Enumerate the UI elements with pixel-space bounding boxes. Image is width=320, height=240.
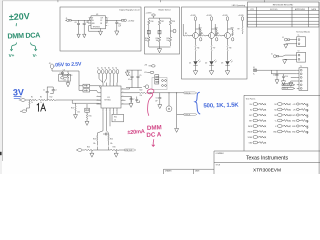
- wire out to flags: [147, 92, 184, 94]
- svg-text:J6: J6: [253, 67, 255, 69]
- resistor R10 shunt: [27, 100, 31, 110]
- svg-text:20k: 20k: [140, 95, 143, 97]
- wire input to regulator: [71, 19, 91, 21]
- svg-text:XTR_IN: XTR_IN: [283, 88, 288, 90]
- svg-text:10k: 10k: [93, 143, 96, 145]
- power symbol +3.3VD row 3: [290, 114, 308, 117]
- power flag +1.8V column 4 stub: [238, 15, 245, 34]
- svg-text:R15: R15: [89, 116, 92, 118]
- svg-text:Test Points: Test Points: [246, 97, 256, 100]
- capacitor C16: [282, 74, 288, 81]
- jumper JP2: [79, 86, 101, 93]
- svg-text:U3: U3: [96, 14, 98, 16]
- svg-text:V+: V+: [253, 74, 255, 76]
- svg-text:D3: D3: [221, 63, 223, 65]
- resistor R1: [30, 96, 38, 100]
- svg-text:NC: NC: [100, 20, 102, 22]
- capacitor C12: [103, 133, 109, 136]
- capacitor C2: [52, 87, 57, 94]
- capacitor C9: [83, 20, 88, 27]
- wire T2 pin2 to ground: [285, 58, 295, 60]
- svg-text:±20mA: ±20mA: [127, 129, 145, 136]
- wire cap rail: [47, 87, 53, 94]
- resistor R15: [86, 112, 91, 121]
- test point TP10: [274, 108, 290, 111]
- test point TP6: [247, 130, 266, 133]
- jumper JMP1: [147, 26, 150, 34]
- wire ic right pins: [126, 88, 132, 104]
- svg-text:TPS76933: TPS76933: [93, 26, 100, 28]
- svg-text:1uF: 1uF: [118, 26, 121, 28]
- test point TP7: [248, 136, 266, 139]
- annotation V+ hook arrow (teal): [10, 43, 16, 51]
- svg-text:1k: 1k: [114, 119, 116, 121]
- test point TP5: [248, 125, 266, 128]
- wire T3 pin4: [291, 81, 297, 82]
- capacitor C7: [129, 97, 135, 108]
- wire to ladder: [56, 99, 72, 101]
- ground: [66, 83, 70, 87]
- svg-text:XTR_OUT: XTR_OUT: [283, 84, 290, 86]
- capacitor C15: [273, 70, 278, 80]
- net flag XTR_OUT: [282, 84, 295, 87]
- ground: [275, 80, 279, 84]
- test points box: [244, 95, 320, 151]
- svg-text:V+: V+: [9, 53, 15, 58]
- wire bottom rail: [149, 47, 171, 49]
- jumper header JP4: [155, 75, 159, 84]
- connector J9: [144, 85, 149, 89]
- svg-text:0.1uF: 0.1uF: [128, 79, 132, 81]
- svg-text:Digital Supply Circuit: Digital Supply Circuit: [119, 9, 140, 12]
- ground: [175, 128, 179, 132]
- wire bottom node: [97, 147, 108, 151]
- svg-text:3V: 3V: [13, 87, 24, 97]
- svg-text:J4: J4: [282, 37, 284, 39]
- resistor R24: [108, 133, 113, 146]
- svg-text:R24: R24: [110, 139, 113, 141]
- power symbol GND row 6: [292, 130, 308, 133]
- svg-text:+VS: +VS: [144, 65, 147, 67]
- svg-text:FB: FB: [100, 23, 102, 25]
- svg-text:R19: R19: [145, 38, 148, 40]
- ground: [157, 49, 161, 53]
- svg-text:R8: R8: [229, 48, 231, 50]
- svg-text:R6: R6: [197, 48, 199, 50]
- wire tp rail: [52, 70, 79, 72]
- wire T2 pin1: [279, 55, 295, 56]
- annotation pink loop on node: [147, 88, 155, 94]
- svg-text:C1: C1: [43, 89, 45, 91]
- svg-text:APPROVED: APPROVED: [295, 8, 306, 11]
- svg-text:C5: C5: [139, 75, 141, 77]
- annotation ±20V (teal): [9, 11, 30, 22]
- node A junction: [47, 99, 48, 100]
- ground: [289, 82, 293, 86]
- ground: [158, 105, 162, 109]
- svg-text:COMPANY: COMPANY: [216, 152, 225, 155]
- svg-text:10k: 10k: [156, 40, 159, 42]
- annotation tick: [15, 23, 17, 26]
- svg-text:R3: R3: [185, 33, 187, 35]
- wire input: [25, 99, 29, 101]
- ground: [77, 34, 80, 38]
- resistor R17: [158, 18, 164, 26]
- resistor R25: [82, 147, 104, 151]
- svg-text:Texas Instruments: Texas Instruments: [246, 155, 288, 161]
- svg-text:1k: 1k: [40, 102, 42, 104]
- svg-text:R18: R18: [172, 21, 175, 23]
- svg-text:C3: C3: [63, 69, 65, 71]
- svg-text:Mode Select: Mode Select: [159, 9, 172, 12]
- capacitor C11: [135, 97, 139, 103]
- title block: [214, 151, 320, 174]
- svg-text:C2: C2: [55, 89, 57, 91]
- output jack J3 +3.3VD: [122, 19, 135, 22]
- svg-text:XTR300EVM: XTR300EVM: [253, 167, 281, 173]
- svg-text:OUT: OUT: [100, 17, 103, 19]
- capacitor C1: [43, 87, 49, 100]
- svg-text:T2: T2: [298, 51, 300, 53]
- svg-text:T3: T3: [300, 66, 302, 68]
- power symbol GND row 4: [292, 119, 308, 122]
- svg-text:EN: EN: [92, 20, 94, 22]
- svg-text:V5: V5: [112, 67, 114, 69]
- test point TP8: [249, 141, 266, 144]
- svg-text:±20V: ±20V: [9, 11, 30, 22]
- connector J5: [271, 54, 279, 58]
- test point TP0 input: [49, 63, 54, 71]
- svg-text:ECO NO.: ECO NO.: [270, 9, 278, 11]
- svg-text:OUT: OUT: [249, 115, 252, 117]
- terminal block T2: [295, 51, 306, 63]
- wire V+ rail: [257, 69, 297, 71]
- test point TP12: [275, 119, 291, 122]
- ground: [125, 72, 129, 76]
- svg-text:C8: C8: [75, 22, 77, 24]
- ground: [90, 153, 94, 157]
- wire decoupling bottom: [126, 87, 142, 89]
- connector J7 jack: [20, 110, 27, 113]
- svg-text:+VS: +VS: [292, 104, 295, 106]
- svg-text:VREG: VREG: [248, 137, 253, 139]
- svg-text:V+: V+: [275, 120, 277, 122]
- svg-text:V6: V6: [116, 67, 118, 69]
- wire ic bottom to resistors: [97, 112, 110, 133]
- svg-text:C15: C15: [273, 74, 276, 76]
- annotation 3V underline: [14, 97, 21, 99]
- terminal block T3: [297, 66, 308, 90]
- led driver column 3: [215, 15, 234, 75]
- terminal block T1: [295, 35, 306, 47]
- power flag +VS: [144, 65, 155, 68]
- svg-text:J8: J8: [49, 63, 51, 65]
- wire top rail: [149, 16, 171, 18]
- connector J2 input jack: [65, 18, 71, 22]
- svg-text:LED Operating: LED Operating: [232, 4, 245, 7]
- resistor R18: [169, 18, 175, 26]
- wire to lower ground: [176, 114, 178, 128]
- svg-text:+3.3VD: +3.3VD: [146, 13, 153, 15]
- led driver column 2: [199, 15, 218, 75]
- annotation pink arrow: [152, 139, 155, 146]
- ground: [115, 31, 119, 35]
- svg-text:Terminal Blocks: Terminal Blocks: [296, 32, 310, 34]
- svg-text:J2: J2: [66, 18, 68, 20]
- svg-text:DATE: DATE: [311, 8, 316, 11]
- ground: [83, 34, 86, 38]
- svg-text:V3: V3: [105, 67, 107, 69]
- svg-text:R11: R11: [114, 117, 117, 119]
- svg-text:+3.3VD: +3.3VD: [290, 115, 296, 117]
- node OUT junction: [150, 92, 151, 93]
- gain resistor block R11: [112, 112, 124, 122]
- svg-text:-VS: -VS: [293, 109, 296, 111]
- power flag +3.3VD: [146, 13, 156, 17]
- svg-text:V2: V2: [101, 67, 103, 69]
- svg-text:R26: R26: [113, 147, 116, 149]
- approvals strip: [164, 169, 215, 174]
- svg-text:R20: R20: [156, 38, 159, 40]
- jumper JMP2: [158, 26, 161, 34]
- resistor R14: [71, 103, 76, 114]
- test point TP9: [274, 103, 290, 106]
- test point TP14: [273, 130, 290, 133]
- resistor R26: [104, 147, 125, 151]
- wire T3 pin3: [291, 76, 297, 78]
- svg-text:10k: 10k: [77, 111, 80, 113]
- svg-text:C7: C7: [132, 99, 134, 101]
- jumper JP3: [85, 104, 90, 112]
- svg-text:500, 1K, 1.5K: 500, 1K, 1.5K: [203, 103, 239, 110]
- svg-text:M1: M1: [274, 104, 276, 106]
- revision record table: [248, 2, 320, 27]
- page edge shading: [0, 0, 320, 1]
- svg-text:+3.3VD: +3.3VD: [128, 20, 135, 22]
- svg-text:T1: T1: [298, 35, 300, 37]
- ground: [284, 44, 288, 48]
- connector box J12: [59, 73, 71, 81]
- jumper header JP5: [152, 78, 167, 90]
- svg-text:V1: V1: [98, 67, 100, 69]
- svg-text:R9: R9: [238, 29, 240, 31]
- capacitor C8: [75, 20, 81, 27]
- ground: [114, 153, 118, 157]
- connector J10 banana: [166, 92, 172, 111]
- annotation pink curve: [148, 94, 153, 116]
- resistor R12: [48, 96, 56, 100]
- svg-text:R17: R17: [161, 21, 164, 23]
- digital supply circuit box: [60, 7, 141, 51]
- wire T1 pin1: [290, 39, 295, 41]
- svg-text:R2: R2: [40, 96, 42, 98]
- svg-text:XTR300: XTR300: [104, 100, 111, 102]
- pin numbers U1: [98, 87, 124, 112]
- svg-text:DC A: DC A: [146, 131, 162, 139]
- svg-text:REVISION RECORD: REVISION RECORD: [273, 5, 294, 7]
- supply rail top right: [126, 69, 142, 71]
- wire regulator output: [107, 18, 122, 26]
- svg-text:R29: R29: [231, 28, 234, 30]
- wire T3 pin2: [271, 70, 297, 74]
- ground under regulator: [99, 31, 103, 35]
- ground: [282, 81, 286, 85]
- svg-text:R23: R23: [93, 139, 96, 141]
- test point TP13: [170, 26, 176, 33]
- svg-text:C16: C16: [285, 76, 288, 78]
- svg-text:J12: J12: [59, 73, 62, 75]
- svg-text:IN: IN: [92, 17, 93, 19]
- resistor R23: [93, 133, 98, 146]
- wire regulator feedback: [88, 18, 101, 32]
- svg-text:R12: R12: [50, 96, 53, 98]
- wire T1 pin2 to ground: [286, 43, 295, 45]
- svg-text:R5: R5: [217, 33, 219, 35]
- ground: [85, 121, 89, 125]
- svg-text:1nF: 1nF: [155, 100, 158, 102]
- svg-text:J5: J5: [271, 54, 273, 56]
- svg-text:R16: R16: [151, 21, 154, 23]
- svg-text:R7: R7: [213, 48, 215, 50]
- svg-text:XTR_OUT: XTR_OUT: [125, 150, 132, 152]
- svg-text:IN+: IN+: [250, 104, 253, 106]
- capacitor C3: [61, 69, 68, 75]
- svg-text:DRAWN: DRAWN: [165, 170, 172, 173]
- svg-text:C10: C10: [118, 24, 121, 26]
- resistor R22 RSET: [126, 90, 147, 94]
- svg-text:M3: M3: [274, 115, 276, 117]
- ground: [283, 60, 287, 64]
- power symbol +VS row 1: [292, 103, 308, 106]
- svg-text:10k: 10k: [167, 40, 170, 42]
- svg-text:V-: V-: [33, 53, 38, 58]
- power symbol GND row 5: [292, 125, 308, 128]
- wire main to ic: [72, 100, 101, 104]
- svg-text:R14: R14: [71, 108, 74, 110]
- op-amp IC U1 XTR300: [97, 83, 126, 112]
- connector J11 jack: [76, 149, 82, 152]
- led circuits box: [182, 4, 248, 79]
- svg-text:+3.3VD: +3.3VD: [238, 15, 244, 17]
- svg-text:SET: SET: [249, 120, 252, 122]
- resistor R13: [67, 71, 72, 83]
- svg-text:GND: GND: [92, 23, 95, 25]
- svg-text:.05V to 2.5V: .05V to 2.5V: [54, 62, 82, 69]
- annotation brace (blue): [195, 92, 200, 114]
- regulator U3: [88, 14, 108, 29]
- net flag XTR_IN-: [177, 113, 197, 116]
- jumper JP1: [79, 84, 101, 89]
- connector J1 input jack: [19, 97, 25, 102]
- svg-text:R1: R1: [31, 96, 33, 98]
- mode select box: [145, 7, 180, 54]
- resistor R21: [167, 31, 172, 46]
- wire down branch: [176, 93, 178, 115]
- svg-text:-VS: -VS: [144, 72, 147, 74]
- svg-text:R22: R22: [140, 90, 143, 92]
- net flag XTR_OUT2: [125, 149, 136, 152]
- test point TP13: [275, 125, 290, 128]
- resistor R2: [39, 96, 47, 100]
- svg-text:10k: 10k: [145, 40, 148, 42]
- capacitor C6: [156, 93, 162, 104]
- led driver column 1: [183, 15, 202, 75]
- test point TP11: [274, 114, 290, 117]
- power symbol -VS row 2: [293, 108, 309, 111]
- connector J6: [253, 67, 257, 76]
- net flag XTR_IN: [282, 87, 295, 90]
- svg-text:D1: D1: [189, 63, 191, 65]
- test point TP2: [250, 108, 266, 111]
- test point TP row above IC: [98, 67, 119, 74]
- test point TP3: [249, 114, 266, 117]
- svg-text:V4: V4: [109, 67, 111, 69]
- ground: [74, 115, 78, 119]
- connector J4: [282, 37, 290, 41]
- wire feed down: [78, 71, 80, 86]
- capacitor C5: [137, 70, 142, 88]
- resistor R16: [148, 18, 154, 26]
- svg-text:R25: R25: [87, 147, 90, 149]
- wire tp stems: [99, 74, 118, 83]
- svg-text:R21: R21: [167, 38, 170, 40]
- svg-text:10k: 10k: [110, 143, 113, 145]
- test point TP1: [250, 103, 266, 106]
- svg-text:D2: D2: [205, 63, 207, 65]
- svg-text:R4: R4: [201, 33, 203, 35]
- resistor R19: [145, 34, 150, 47]
- svg-text:C4: C4: [128, 75, 130, 77]
- power flag -VS: [144, 71, 154, 74]
- svg-text:DMM DCA: DMM DCA: [7, 30, 40, 40]
- svg-text:C6: C6: [156, 97, 158, 99]
- capacitor C10: [115, 20, 121, 31]
- resistor R20: [156, 34, 161, 47]
- net flag XTR_IN+: [184, 92, 197, 95]
- annotation 1A (black): [37, 104, 46, 112]
- test point TP4: [249, 119, 266, 122]
- capacitor C4: [128, 70, 133, 88]
- svg-text:R13: R13: [69, 75, 72, 77]
- svg-text:1k: 1k: [31, 102, 33, 104]
- annotation V- hook arrow (teal): [31, 43, 38, 51]
- svg-text:M2: M2: [274, 109, 276, 111]
